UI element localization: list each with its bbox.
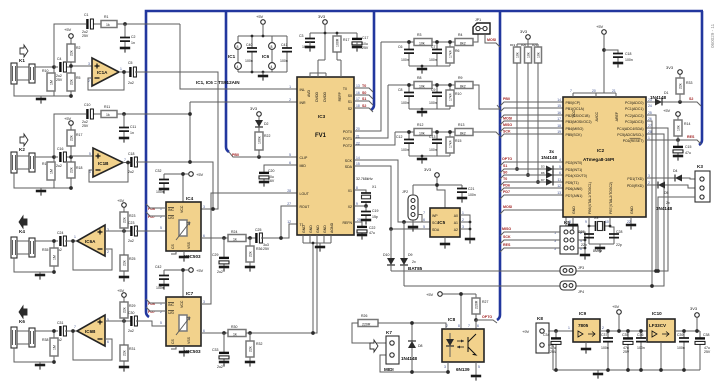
EEPROM IC5 [430, 208, 460, 237]
svg-text:R10: R10 [455, 92, 461, 96]
net label PD7 wire [500, 190, 563, 199]
svg-text:C40: C40 [246, 43, 252, 47]
3V3 supply (pull-ups) [517, 29, 538, 47]
svg-text:9: 9 [585, 220, 587, 224]
wire K1 filter top [54, 22, 297, 89]
svg-text:3V3: 3V3 [666, 65, 674, 70]
svg-text:3V3: 3V3 [520, 29, 528, 34]
wire + input IC6A [105, 229, 131, 233]
svg-text:S0: S0 [503, 171, 507, 175]
svg-text:2x: 2x [412, 260, 416, 264]
svg-text:MOSI: MOSI [487, 38, 496, 42]
svg-text:5: 5 [423, 225, 425, 229]
net label PD6 wire [500, 184, 563, 193]
svg-text:22k: 22k [70, 79, 74, 85]
feedback wire IC6B [71, 329, 112, 360]
ground (C29) [219, 267, 229, 272]
svg-text:T0: T0 [362, 84, 366, 88]
svg-text:3V3: 3V3 [424, 167, 432, 172]
ground (IC2 pin8) [568, 217, 578, 230]
capacitor C42 100n [155, 265, 169, 290]
svg-text:5: 5 [289, 153, 291, 157]
svg-text:C41: C41 [281, 43, 287, 47]
svg-text:R14: R14 [684, 122, 690, 126]
svg-text:17k4: 17k4 [449, 50, 453, 58]
capacitor C28 22p [609, 230, 622, 247]
svg-text:PC2(ADC2): PC2(ADC2) [625, 114, 643, 118]
svg-text:DVDD: DVDD [315, 92, 319, 102]
net label RES wire (K5) [500, 243, 560, 252]
svg-text:2u2: 2u2 [128, 170, 134, 174]
ground (IC9) [581, 349, 591, 354]
op-amp IC6B (mirrored) [74, 315, 109, 346]
svg-text:IC6B: IC6B [85, 329, 96, 334]
svg-text:C9: C9 [431, 88, 436, 92]
svg-text:25V: 25V [704, 350, 711, 354]
svg-text:K4: K4 [19, 229, 25, 234]
svg-text:3V3: 3V3 [690, 306, 698, 311]
svg-text:S0: S0 [362, 91, 366, 95]
svg-text:+9V: +9V [522, 329, 530, 334]
svg-text:28: 28 [648, 130, 652, 134]
svg-text:ROUT: ROUT [300, 205, 311, 209]
svg-text:D9: D9 [408, 253, 413, 257]
svg-text:PB3(MOSI/OC2): PB3(MOSI/OC2) [566, 120, 592, 124]
svg-text:R26: R26 [361, 314, 367, 318]
svg-text:100n: 100n [429, 148, 437, 152]
svg-text:C31: C31 [57, 321, 63, 325]
svg-text:C11: C11 [130, 125, 136, 129]
connector K8 power [522, 316, 573, 370]
svg-text:MISO: MISO [503, 123, 512, 127]
svg-text:25V: 25V [82, 34, 89, 38]
capacitor C21 100n [457, 185, 476, 197]
svg-text:VCC: VCC [572, 110, 576, 118]
net label MISO wire (K5) [500, 227, 560, 236]
svg-text:R15: R15 [455, 139, 461, 143]
blue partition boundary [146, 11, 703, 320]
svg-text:060029 - 11: 060029 - 11 [710, 23, 715, 48]
svg-text:IC1A: IC1A [97, 70, 108, 75]
svg-text:10k: 10k [419, 42, 425, 46]
svg-text:6: 6 [289, 161, 291, 165]
net label PB0 / CLIP wire [229, 152, 297, 159]
svg-text:U/D: U/D [168, 216, 175, 220]
svg-text:PC4(ADC4/SDA): PC4(ADC4/SDA) [617, 127, 644, 131]
svg-text:PD6(AIN0): PD6(AIN0) [566, 187, 583, 191]
svg-text:1n: 1n [130, 131, 134, 135]
+5V supply (IC2) [573, 24, 616, 97]
svg-text:C6: C6 [398, 45, 403, 49]
capacitor C5 2u2 [128, 61, 218, 209]
capacitor C23 2u2 [128, 221, 166, 243]
svg-text:6: 6 [203, 234, 205, 238]
svg-text:22k: 22k [70, 135, 74, 141]
svg-text:22k: 22k [123, 260, 127, 266]
resistor R14 10k [674, 116, 690, 140]
capacitor C4 2u2 [54, 57, 71, 82]
svg-text:R23: R23 [129, 214, 135, 218]
junction node R11/C18 [188, 112, 215, 211]
capacitor C17 10u 25V [352, 36, 369, 50]
svg-text:8: 8 [237, 45, 239, 49]
ground (row 1) [417, 65, 427, 74]
resistor R26 220R [358, 314, 378, 327]
feedback wire IC6A [71, 239, 112, 270]
ground (X3) [589, 244, 614, 253]
svg-text:RES: RES [503, 243, 511, 247]
svg-text:R3: R3 [417, 33, 422, 37]
svg-text:R38: R38 [42, 338, 48, 342]
svg-text:SCK: SCK [345, 159, 353, 163]
svg-text:22k: 22k [249, 346, 253, 352]
I2C rail 2 (SCL) [404, 134, 664, 286]
resistor R13 8k2 [455, 123, 473, 136]
ground (R36) [245, 267, 255, 272]
svg-text:C33: C33 [212, 348, 218, 352]
svg-text:R36: R36 [256, 247, 262, 251]
+5V supply (IC7) [164, 268, 204, 297]
svg-text:19: 19 [557, 130, 561, 134]
ground (op-amp supply) [258, 72, 268, 81]
svg-text:220R: 220R [475, 300, 479, 309]
svg-text:GND: GND [630, 206, 634, 214]
resistor R17a 22k [67, 126, 82, 158]
capacitor C6 100n [398, 45, 414, 62]
svg-text:R31: R31 [129, 347, 135, 351]
svg-text:17k4: 17k4 [449, 93, 453, 101]
resistor R6 17k4 [446, 47, 460, 63]
svg-text:1N4148: 1N4148 [650, 95, 667, 100]
svg-text:6: 6 [477, 324, 479, 328]
connector K3 [656, 164, 710, 273]
svg-text:27: 27 [648, 124, 652, 128]
wire ROUT to mixer [279, 206, 297, 240]
svg-text:+5V: +5V [64, 27, 72, 32]
svg-text:+5V: +5V [256, 14, 264, 19]
voltage regulator IC9 7805 [568, 311, 604, 348]
svg-text:PD3(INT1): PD3(INT1) [566, 168, 583, 172]
svg-text:100n: 100n [401, 58, 409, 62]
svg-text:PC5(ADC5/SCL): PC5(ADC5/SCL) [617, 133, 643, 137]
svg-text:28: 28 [287, 189, 291, 193]
svg-text:PD2(INT0): PD2(INT0) [566, 161, 583, 165]
resistor R4 8k2 [455, 33, 473, 46]
svg-text:9: 9 [356, 202, 358, 206]
FV1 top pin stubs [310, 73, 341, 77]
+5V supply (PSU) [600, 304, 647, 333]
connector K1 (input jack) [11, 45, 71, 96]
svg-text:C21: C21 [468, 187, 474, 191]
jumper JP2 [402, 185, 430, 226]
ground (IC4 VSS) [171, 251, 189, 262]
svg-text:C28: C28 [616, 230, 622, 234]
svg-text:C42: C42 [155, 265, 161, 269]
ground (IC5 ties) [465, 239, 475, 244]
ground (PSU) [593, 370, 603, 379]
svg-text:2u2: 2u2 [128, 81, 134, 85]
svg-text:C39: C39 [677, 333, 683, 337]
svg-text:10k: 10k [677, 125, 681, 131]
ground (C32) [159, 189, 169, 194]
svg-text:K6: K6 [19, 319, 25, 324]
svg-text:C3: C3 [299, 34, 304, 38]
svg-text:5: 5 [160, 321, 162, 325]
ground (C15) [673, 156, 683, 161]
ground (FV1) [315, 243, 325, 252]
ground (C19) [361, 220, 371, 225]
svg-text:2u2: 2u2 [128, 239, 134, 243]
svg-text:FV1: FV1 [315, 133, 327, 139]
svg-text:25: 25 [648, 111, 652, 115]
svg-text:1M: 1M [53, 345, 57, 350]
svg-text:C2: C2 [131, 35, 136, 39]
svg-text:1N4148: 1N4148 [401, 356, 418, 361]
ground (IC7 VSS) [171, 346, 189, 357]
svg-text:GND: GND [309, 225, 313, 233]
I2C rail 1 (SDA) [391, 128, 668, 271]
svg-text:8: 8 [569, 220, 571, 224]
svg-text:PB2(SS/OC1B): PB2(SS/OC1B) [566, 114, 590, 118]
svg-text:8: 8 [356, 186, 358, 190]
note TS912AIN [196, 80, 240, 85]
jumper JP4 [560, 281, 584, 294]
svg-text:MOSI: MOSI [503, 117, 512, 121]
svg-text:ATmega8-16PI: ATmega8-16PI [583, 157, 614, 162]
svg-text:D3: D3 [541, 165, 545, 169]
+5V supply (MIDI) [426, 292, 476, 329]
svg-text:100n: 100n [468, 193, 476, 197]
svg-text:S2: S2 [362, 104, 366, 108]
svg-text:22k: 22k [249, 251, 253, 257]
3V3 supply (FV1) [310, 14, 357, 73]
svg-text:R4: R4 [458, 33, 463, 37]
capacitor C19 15p [361, 206, 378, 219]
K5 pin numbers [554, 231, 582, 251]
+5V supply (IC4) [164, 172, 204, 202]
svg-text:8k2: 8k2 [460, 132, 466, 136]
resistor R20 10k [521, 43, 532, 177]
svg-text:C18: C18 [128, 152, 134, 156]
feedback wire IC1B [89, 163, 128, 183]
svg-text:REFP: REFP [338, 91, 342, 101]
svg-text:C17: C17 [362, 36, 368, 40]
svg-text:T0: T0 [343, 87, 347, 91]
svg-text:22k: 22k [679, 83, 683, 89]
op-amp IC1B [89, 148, 126, 177]
capacitor C22 47u (REFN) [354, 222, 375, 235]
capacitor C31 2u2 [56, 321, 77, 342]
svg-text:12: 12 [287, 220, 291, 224]
diode D2 [255, 120, 269, 132]
svg-text:10k: 10k [419, 132, 425, 136]
jumper JP3 [560, 266, 584, 275]
svg-text:17: 17 [356, 97, 360, 101]
resistor R24 1k [228, 230, 256, 242]
svg-text:100n: 100n [280, 59, 288, 63]
svg-text:7: 7 [74, 325, 76, 329]
capacitor C13 100n [429, 135, 442, 152]
ground (C21) [457, 198, 467, 203]
svg-text:R1: R1 [104, 15, 109, 19]
svg-text:26: 26 [648, 117, 652, 121]
resistor R23 22k [120, 208, 135, 232]
svg-text:C16: C16 [57, 147, 63, 151]
filter row 3 wires [395, 130, 500, 156]
svg-text:100n: 100n [245, 59, 253, 63]
svg-text:R17: R17 [343, 38, 349, 42]
svg-text:15: 15 [557, 104, 561, 108]
svg-text:1M: 1M [50, 169, 54, 174]
svg-text:INR: INR [300, 101, 307, 105]
resistor R10 1M [42, 69, 55, 91]
net label SCK wire (K5) [500, 235, 560, 244]
capacitor C33 2u2 [212, 333, 229, 369]
ground (C11) [119, 138, 129, 143]
net labels T0 S0 S1 S2 (FV1) [354, 84, 373, 112]
resistor R21 10k [532, 43, 542, 184]
svg-text:16: 16 [557, 111, 561, 115]
svg-text:GND: GND [572, 206, 576, 214]
ground (C3) [305, 47, 315, 52]
+5V supply (K4) [117, 198, 126, 207]
voltage regulator IC10 LF33CV [647, 311, 675, 370]
svg-text:47u: 47u [369, 231, 375, 235]
svg-text:D6: D6 [541, 171, 545, 175]
svg-text:15: 15 [356, 162, 360, 166]
svg-text:R29: R29 [129, 304, 135, 308]
resistor R8 10k [414, 76, 432, 89]
svg-text:IC8: IC8 [448, 317, 456, 322]
svg-text:IC4: IC4 [186, 196, 194, 201]
svg-text:C25: C25 [255, 228, 261, 232]
svg-text:100n: 100n [601, 346, 609, 350]
capacitor C35 47u 25V [622, 329, 633, 370]
svg-text:IC9: IC9 [579, 311, 587, 316]
svg-text:POT2: POT2 [343, 144, 352, 148]
svg-text:3: 3 [203, 205, 205, 209]
capacitor C7 100n [429, 45, 442, 62]
svg-text:SDA: SDA [432, 228, 440, 232]
connector K4 (output jack) [11, 216, 58, 272]
svg-text:1M: 1M [50, 80, 54, 85]
svg-text:13: 13 [557, 191, 561, 195]
IC1 power pins [228, 43, 241, 70]
svg-text:5: 5 [559, 165, 561, 169]
svg-text:GND: GND [302, 225, 306, 233]
svg-text:2: 2 [648, 181, 650, 185]
svg-text:R5: R5 [76, 76, 81, 80]
svg-text:1: 1 [648, 136, 650, 140]
svg-text:MIDI: MIDI [384, 367, 394, 372]
diode D10 BAT85 [383, 227, 395, 271]
svg-text:8k2: 8k2 [460, 42, 466, 46]
output node wire [119, 70, 130, 74]
svg-text:C36: C36 [637, 333, 643, 337]
3V3 supply (IC5) [413, 167, 462, 208]
label 3x 1N4148 [541, 149, 558, 160]
svg-text:INL: INL [300, 88, 306, 92]
svg-text:2: 2 [462, 218, 464, 222]
svg-text:S0: S0 [348, 94, 352, 98]
svg-text:22k: 22k [123, 217, 127, 223]
diode D8 1N4148 [401, 341, 423, 361]
svg-text:3: 3 [203, 300, 205, 304]
ground (R25) [119, 277, 129, 282]
svg-text:10k: 10k [516, 52, 520, 58]
pin 5 wire (IC4) [160, 226, 162, 230]
resistor R31 22k [120, 321, 135, 366]
svg-text:JP2: JP2 [402, 190, 408, 194]
resistor R3 10k [414, 33, 432, 46]
SCK/SDA wires to IC5 [354, 160, 430, 229]
svg-text:POT0: POT0 [343, 130, 352, 134]
resistor R17 100R [333, 36, 349, 73]
svg-text:3V3: 3V3 [318, 14, 326, 19]
svg-text:1: 1 [289, 85, 291, 89]
ground (C42) [159, 285, 169, 290]
svg-text:IC6A: IC6A [85, 239, 96, 244]
FV1 bottom ground rail [303, 235, 331, 335]
svg-text:100n: 100n [429, 58, 437, 62]
resistor R15 17k4 [446, 137, 461, 153]
3V3 supply (R33) [666, 65, 682, 74]
svg-text:CS: CS [171, 243, 175, 249]
svg-text:R22: R22 [264, 134, 270, 138]
svg-text:7805: 7805 [578, 323, 589, 328]
resistor R12 10k [414, 123, 432, 136]
svg-text:GND: GND [316, 225, 320, 233]
svg-text:2: 2 [289, 98, 291, 102]
IC3 FV1 DSP [297, 77, 354, 235]
net label S2 (IC2) [689, 97, 693, 101]
svg-text:R11: R11 [104, 105, 110, 109]
svg-text:S2: S2 [689, 97, 693, 101]
svg-text:R30: R30 [231, 325, 237, 329]
resistor R11 1k [101, 105, 117, 118]
capacitor C40 100n [245, 43, 257, 63]
feedback wire IC1A [88, 72, 124, 90]
net label MOSI (K5) [500, 205, 566, 226]
pin 3 wire (IC4) to LOUT [203, 205, 205, 209]
op-amp supply rails [238, 35, 287, 74]
svg-text:INC: INC [168, 303, 175, 307]
resistor R35 1M [42, 248, 58, 274]
capacitor C16 2u2 [54, 147, 71, 168]
svg-text:K2: K2 [19, 147, 25, 152]
svg-text:100R: 100R [336, 38, 340, 47]
ground (row 3) [417, 155, 427, 164]
svg-text:C18: C18 [625, 52, 631, 56]
PSU ground rail [553, 368, 700, 372]
diode D9 BAT85 [400, 220, 413, 286]
svg-text:100n: 100n [401, 148, 409, 152]
svg-text:2u2: 2u2 [217, 270, 223, 274]
svg-text:AVD: AVD [307, 90, 311, 97]
ground (row 2) [417, 108, 427, 117]
svg-text:1N4148: 1N4148 [541, 155, 558, 160]
capacitor C30 2u2 [128, 311, 166, 333]
resistor R16 1M [42, 162, 55, 180]
microcontroller IC2 ATmega8 [563, 97, 646, 217]
svg-text:PC3(ADC3): PC3(ADC3) [625, 120, 643, 124]
svg-text:5: 5 [478, 365, 480, 369]
connector K2 (input jack) [11, 134, 71, 188]
capacitor C29 2u2 [212, 238, 229, 274]
3V3 supply (D2) [250, 106, 261, 120]
resistor R27 220R [472, 294, 488, 322]
svg-text:6N139: 6N139 [456, 367, 470, 372]
